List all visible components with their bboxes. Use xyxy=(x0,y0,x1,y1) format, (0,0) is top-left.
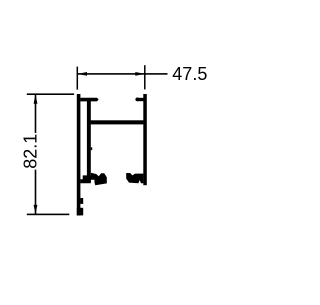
left dimension line lower segment xyxy=(35,170,37,215)
left dimension line upper segment xyxy=(35,94,37,133)
profile top-left flange xyxy=(80,98,98,102)
left dimension extension tick top xyxy=(27,93,74,95)
left dimension arrow bottom xyxy=(34,205,38,215)
left dimension arrow top xyxy=(34,94,38,104)
profile left wall foot xyxy=(77,208,83,216)
profile left wall lower bump xyxy=(80,198,83,204)
top dimension arrow right xyxy=(135,72,145,76)
profile top-right flange tip xyxy=(135,98,139,102)
profile top-right flange xyxy=(137,98,144,101)
top dimension arrow left xyxy=(78,72,88,76)
profile bottom-right hook xyxy=(126,173,143,183)
top dimension line xyxy=(77,73,167,75)
profile bottom-left foot cluster xyxy=(80,173,107,186)
profile right wall xyxy=(143,94,147,185)
svg-text:47.5: 47.5 xyxy=(172,64,207,84)
top dimension extension line right xyxy=(144,65,146,89)
left dimension extension tick bottom xyxy=(27,214,70,216)
profile inner wall xyxy=(87,101,91,177)
profile left outer wall xyxy=(77,94,81,216)
profile inner wall bump xyxy=(91,147,92,150)
profile middle web xyxy=(91,120,144,124)
svg-text:82.1: 82.1 xyxy=(20,134,40,169)
top dimension extension line left xyxy=(77,67,79,90)
